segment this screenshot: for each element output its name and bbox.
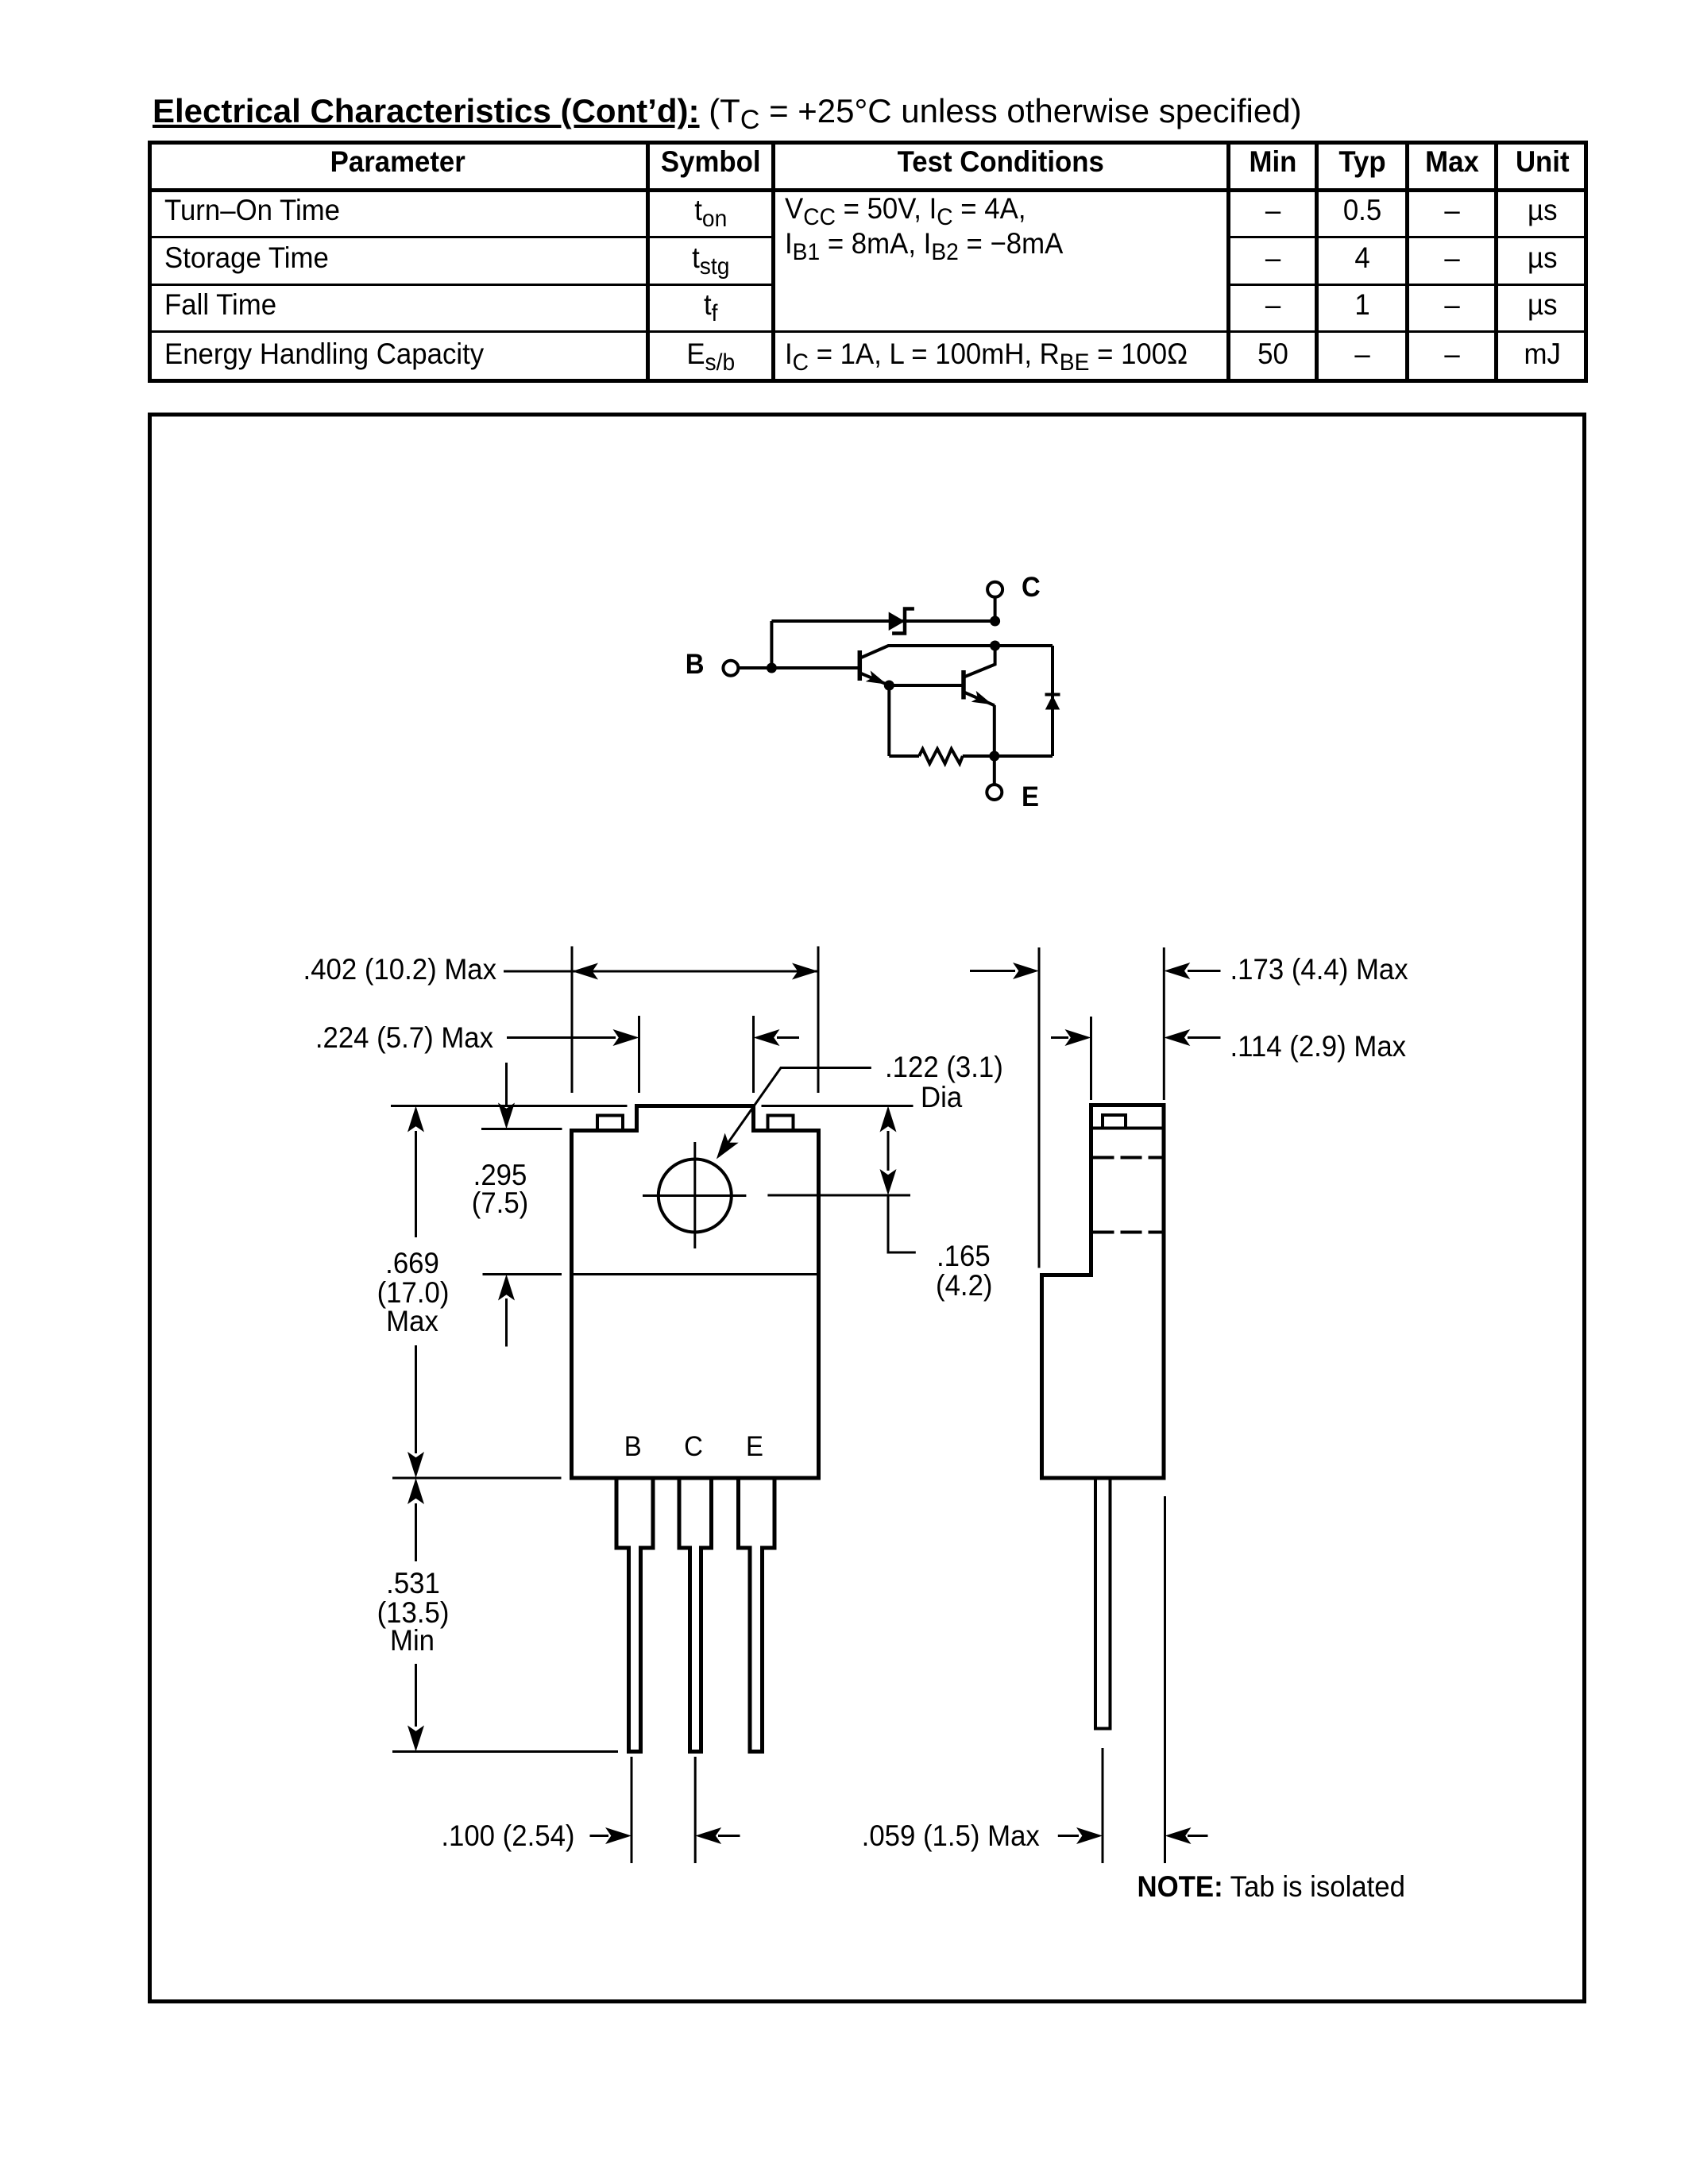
side view hole hidden line top [1093, 1156, 1163, 1160]
transistor Q2 emitter with arrow [964, 691, 995, 705]
dim label .059 [862, 1819, 1040, 1852]
label C [1022, 572, 1041, 603]
wire collector bus to diode branch [995, 644, 1053, 647]
side view outline [1042, 1106, 1165, 1479]
dim .173 extension left [1038, 947, 1041, 1268]
transistor Q1 base bar [858, 650, 863, 681]
tab top extension left [391, 1105, 628, 1107]
node junction dot (B) [767, 663, 777, 673]
dim label .295 [472, 1159, 528, 1219]
svg-text:B: B [624, 1431, 642, 1462]
hole crosshair horizontal [643, 1194, 746, 1197]
dim label .669 [377, 1247, 450, 1337]
zener diode D1 cathode bar [892, 609, 914, 634]
dim .531 top arrow [408, 1478, 424, 1561]
dim label .100 [441, 1819, 574, 1852]
dim .402 line [504, 963, 818, 980]
terminal E [987, 785, 1002, 800]
wire diode branch bottom [995, 754, 1053, 758]
side view notch [1103, 1115, 1126, 1129]
pin label C [684, 1431, 703, 1462]
wire diode branch vertical [1051, 646, 1054, 756]
dim .402 extension right [817, 947, 820, 1094]
dim .114 line right [1164, 1029, 1220, 1046]
dim .669 shaft lower [408, 1345, 424, 1478]
dim .059 extension right [1164, 1496, 1166, 1863]
page title [153, 92, 1302, 129]
dim .224 extension right [752, 1016, 755, 1093]
front view body outline [572, 1106, 819, 1479]
dim .165 arrows [880, 1106, 916, 1253]
node junction dot (Q1 emitter) [884, 681, 894, 691]
svg-text:.122 (3.1): .122 (3.1) [885, 1051, 1003, 1083]
svg-text:.114 (2.9) Max: .114 (2.9) Max [1230, 1030, 1407, 1063]
dim label Dia [921, 1081, 962, 1113]
pin label E [746, 1431, 763, 1462]
wire zener branch horizontal [771, 619, 995, 623]
diode D2 cathode bar [1045, 693, 1060, 696]
svg-text:(4.2): (4.2) [936, 1269, 992, 1302]
dim .173 line left [970, 963, 1039, 979]
svg-text:Min: Min [390, 1624, 435, 1657]
wire B to Q1 base [740, 666, 860, 669]
front view mold line [572, 1273, 819, 1275]
dim .100 line right [695, 1827, 740, 1844]
svg-text:.173 (4.4) Max: .173 (4.4) Max [1230, 953, 1408, 986]
electrical characteristics table [148, 141, 1588, 145]
wire emitter bus to E [993, 756, 996, 785]
label B [686, 649, 705, 680]
dim label .122 [885, 1051, 1003, 1083]
hole leader line [717, 1068, 871, 1160]
dim .100 line left [590, 1827, 632, 1844]
lead B outline [616, 1478, 653, 1752]
wire Q1 emitter node down [887, 685, 890, 756]
transistor Q2 collector [964, 646, 995, 677]
svg-text:.531: .531 [386, 1567, 440, 1599]
dim .224 line right [754, 1029, 800, 1046]
front view right ear [768, 1116, 794, 1131]
side view lead [1095, 1480, 1111, 1729]
tab top extension right [762, 1105, 914, 1107]
svg-text:.669: .669 [385, 1247, 439, 1279]
wire resistor branch [889, 754, 919, 758]
figure border box [150, 415, 1585, 2001]
svg-text:.059 (1.5) Max: .059 (1.5) Max [862, 1819, 1040, 1852]
wire resistor to emitter bus [963, 754, 995, 758]
svg-text:B: B [686, 649, 705, 680]
lead E outline [739, 1478, 775, 1752]
dim label .114 [1230, 1030, 1407, 1063]
dim .059 extension left [1102, 1748, 1104, 1863]
dim .295 lower arrow [498, 1275, 515, 1347]
wire B branch vertical [770, 621, 773, 668]
front view left ear [597, 1116, 623, 1131]
dim .059 line right [1165, 1827, 1208, 1844]
svg-text:E: E [746, 1431, 763, 1462]
dim .402 extension left [571, 947, 574, 1094]
transistor Q1 emitter with arrow [860, 670, 889, 685]
svg-text:C: C [1022, 572, 1041, 603]
label E [1022, 781, 1039, 812]
dim .295 upper arrow [498, 1063, 515, 1129]
svg-text:Dia: Dia [921, 1081, 962, 1113]
zener diode D1 anode triangle [889, 612, 905, 631]
mounting hole circle [659, 1160, 732, 1233]
dim .224 line left [507, 1029, 639, 1046]
lead end tick line [392, 1750, 618, 1753]
dim label .224 [315, 1021, 493, 1054]
dim label .531 [377, 1567, 450, 1657]
dim .100 extension right [694, 1757, 697, 1863]
transistor Q2 base bar [961, 670, 966, 700]
side view hole hidden line bottom [1093, 1231, 1163, 1234]
dim .059 line left [1058, 1827, 1103, 1844]
dim .114 line left [1051, 1029, 1091, 1046]
svg-text:Max: Max [386, 1305, 438, 1337]
dim label .402 [303, 953, 497, 986]
transistor Q1 collector [860, 646, 995, 658]
svg-text:.224 (5.7) Max: .224 (5.7) Max [315, 1021, 493, 1054]
terminal B [723, 661, 738, 676]
dim .173 extension right [1163, 947, 1165, 1100]
dim .173 line right [1164, 963, 1220, 979]
dim .531 bottom shaft [408, 1664, 424, 1752]
hole crosshair vertical [693, 1142, 696, 1248]
terminal C [987, 582, 1002, 597]
dim .100 extension left [631, 1757, 633, 1863]
hole center extension [767, 1194, 910, 1197]
svg-text:.100 (2.54): .100 (2.54) [441, 1819, 574, 1852]
wire Q1 emitter to Q2 base [889, 684, 964, 687]
svg-text:.165: .165 [937, 1240, 991, 1272]
dim label .165 [936, 1240, 992, 1302]
dim label .173 [1230, 953, 1408, 986]
shoulder tick line [481, 1128, 562, 1130]
node junction dot (emitter bus) [989, 751, 999, 762]
resistor R1 zigzag [919, 749, 963, 764]
note text [1138, 1870, 1405, 1903]
svg-text:NOTE: Tab is isolated: NOTE: Tab is isolated [1138, 1870, 1405, 1903]
body bottom tick line [392, 1477, 562, 1480]
node junction dot (C top) [990, 616, 1000, 627]
lead C outline [679, 1478, 712, 1752]
svg-text:C: C [684, 1431, 703, 1462]
dim .224 extension left [638, 1016, 640, 1093]
wire Q2 emitter down [993, 705, 996, 756]
svg-text:.402 (10.2) Max: .402 (10.2) Max [303, 953, 497, 986]
node junction dot (collector bus) [990, 641, 1000, 651]
diode D2 triangle [1045, 696, 1060, 710]
svg-text:(7.5): (7.5) [472, 1187, 528, 1219]
dim .669 top arrow [408, 1106, 424, 1238]
svg-text:E: E [1022, 781, 1039, 812]
dim .114 extension left [1090, 1017, 1092, 1100]
mold line tick [483, 1273, 562, 1275]
wire C to node1 [994, 597, 997, 621]
side view tab inner line [1091, 1127, 1165, 1130]
pin label B [624, 1431, 642, 1462]
